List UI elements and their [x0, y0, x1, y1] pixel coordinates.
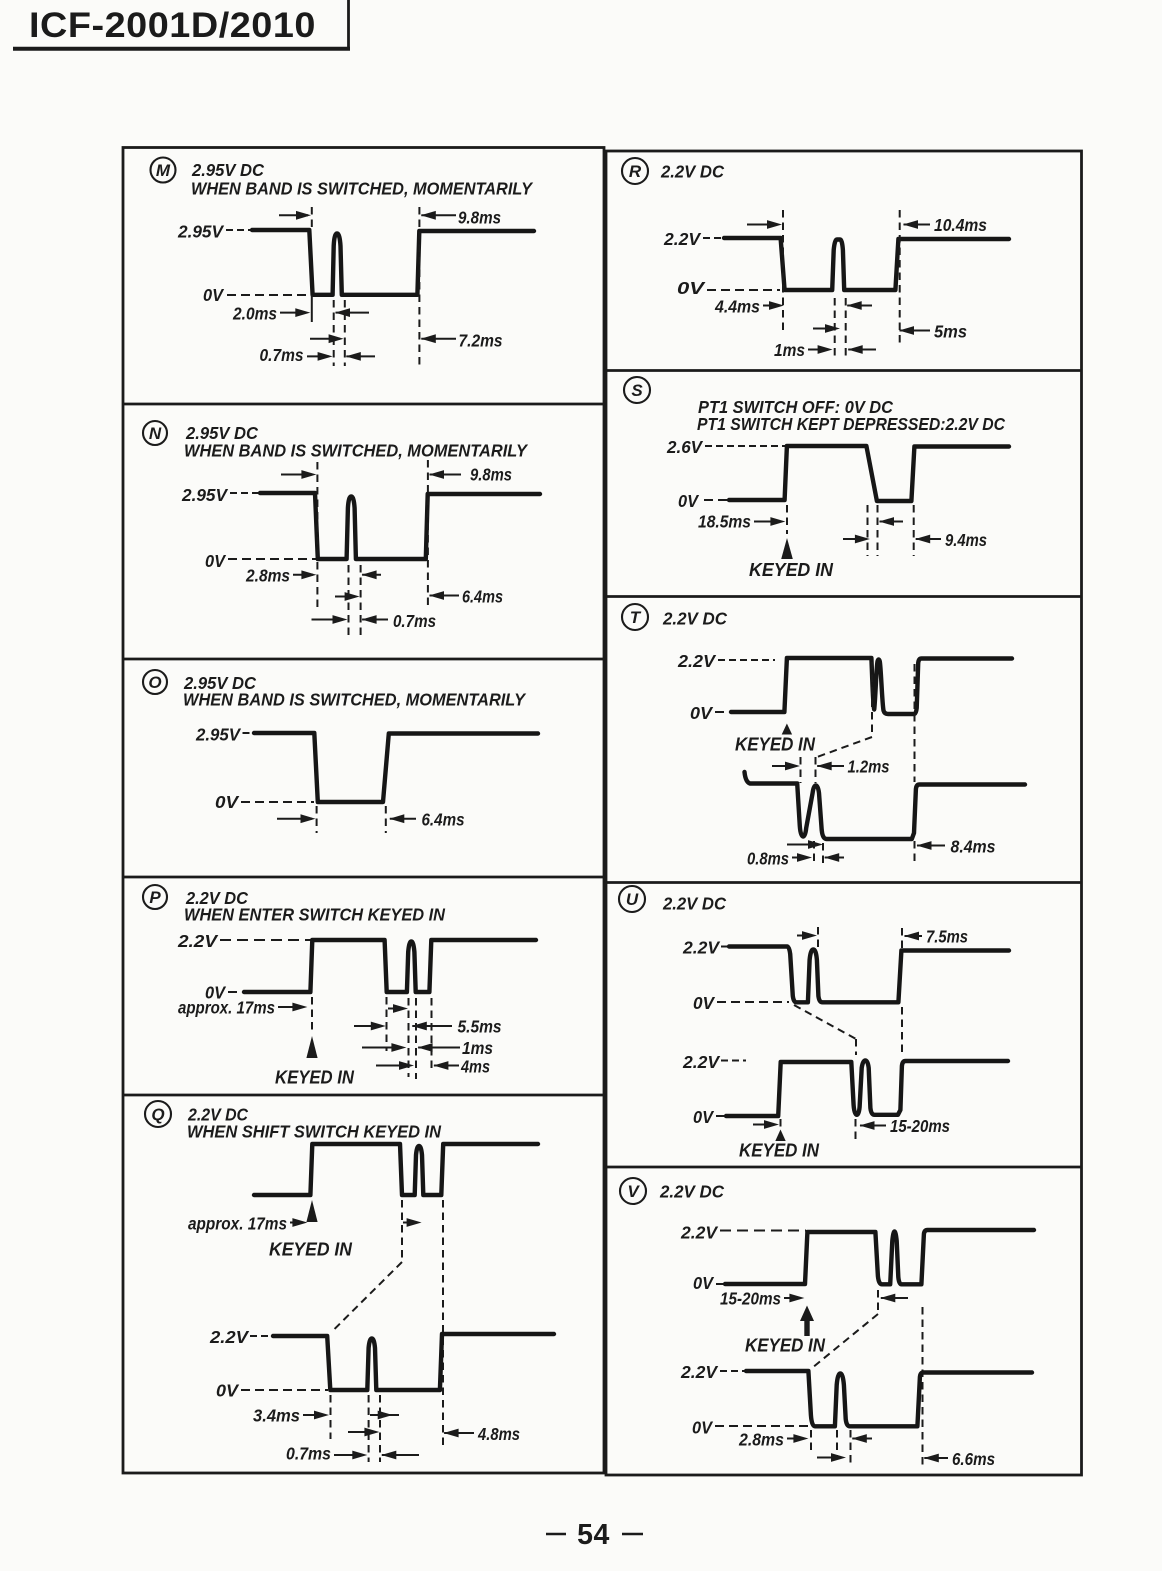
- panel V dashed edge marker (upper fall): [877, 1290, 879, 1314]
- panel M dimension 7.2ms: [421, 331, 503, 351]
- svg-text:1ms: 1ms: [774, 340, 805, 360]
- left column outer frame: [123, 148, 604, 1474]
- panel N circle label: [143, 421, 167, 445]
- svg-text:approx. 17ms: approx. 17ms: [178, 998, 275, 1018]
- svg-text:WHEN ENTER SWITCH KEYED IN: WHEN ENTER SWITCH KEYED IN: [184, 905, 445, 925]
- panel P circle label: [143, 885, 167, 909]
- panel Q short arrow after fall: [403, 1218, 422, 1227]
- svg-text:1.2ms: 1.2ms: [848, 757, 890, 777]
- svg-text:0V: 0V: [205, 551, 226, 571]
- panel T dashed spike-rise marker: [815, 757, 817, 783]
- panel M dashed edge marker (rise): [418, 207, 420, 366]
- panel S arrow right of fall: [879, 517, 903, 526]
- svg-text:2.2V: 2.2V: [682, 938, 720, 958]
- svg-text:ICF-2001D/2010: ICF-2001D/2010: [29, 5, 316, 45]
- panel T dashed edge marker (rise, long): [914, 664, 916, 782]
- svg-text:0V: 0V: [693, 1273, 714, 1293]
- panel V dashed edge marker (rise, long): [922, 1307, 924, 1466]
- svg-text:0.8ms: 0.8ms: [747, 849, 789, 869]
- panel Q dashed edge marker (upper fall): [401, 1200, 403, 1262]
- panel Q lower waveform trace: [273, 1334, 554, 1390]
- panel V upper waveform trace: [725, 1230, 1034, 1284]
- panel N dashed pulse-right marker: [360, 565, 362, 638]
- svg-text:2.2V: 2.2V: [682, 1052, 720, 1072]
- panel S dashed edge marker (rise): [913, 505, 915, 556]
- right column outer frame: [606, 151, 1082, 1475]
- panel P short arrow to spike-left: [388, 1004, 408, 1013]
- svg-text:4ms: 4ms: [460, 1057, 490, 1077]
- panel V lower 2.2V level label: [680, 1362, 745, 1382]
- svg-text:0V: 0V: [203, 285, 224, 305]
- divider O/P: [123, 876, 604, 879]
- svg-text:9.8ms: 9.8ms: [458, 208, 501, 228]
- panel P dimension approx. 17ms: [178, 998, 307, 1018]
- panel M dashed pulse-left marker: [333, 300, 335, 366]
- svg-text:54: 54: [577, 1519, 610, 1551]
- svg-text:2.0ms: 2.0ms: [232, 304, 277, 324]
- panel V arrow right of spike: [852, 1434, 872, 1443]
- panel V dashed diagonal connector: [812, 1314, 878, 1368]
- svg-text:0V: 0V: [678, 491, 699, 511]
- panel V dashed spike-right marker: [850, 1430, 852, 1466]
- svg-text:0V: 0V: [690, 703, 713, 723]
- panel T dashed spike-left marker (below): [813, 841, 815, 864]
- svg-text:2.2V: 2.2V: [677, 651, 716, 671]
- svg-text:2.95V DC: 2.95V DC: [191, 160, 264, 180]
- divider U/V: [606, 1166, 1082, 1169]
- panel U dimension 7.5ms: [904, 927, 968, 947]
- svg-text:7.5ms: 7.5ms: [926, 927, 968, 947]
- svg-text:0V: 0V: [693, 1107, 714, 1127]
- panel T circle label: [622, 604, 648, 630]
- svg-text:2.2V DC: 2.2V DC: [660, 162, 724, 182]
- svg-text:0V: 0V: [677, 278, 706, 298]
- svg-text:3.4ms: 3.4ms: [253, 1406, 300, 1426]
- svg-text:2.2V DC: 2.2V DC: [662, 894, 726, 914]
- divider N/O: [123, 658, 604, 661]
- panel S mid arrow to fall-left: [843, 535, 870, 544]
- panel R waveform trace: [724, 238, 1009, 290]
- panel U upper waveform trace: [729, 947, 1009, 1003]
- svg-text:WHEN BAND IS SWITCHED, MOMENTA: WHEN BAND IS SWITCHED, MOMENTARILY: [191, 179, 533, 199]
- svg-text:9.8ms: 9.8ms: [470, 465, 512, 485]
- panel O circle label: [143, 670, 167, 694]
- panel T upper waveform trace: [731, 658, 1012, 714]
- svg-text:PT1 SWITCH KEPT DEPRESSED:2.2V: PT1 SWITCH KEPT DEPRESSED:2.2V DC: [697, 414, 1005, 434]
- panel U dashed diagonal connector: [794, 1005, 856, 1039]
- panel V arrow right of fall: [880, 1294, 908, 1303]
- panel R dimension 5ms: [899, 322, 967, 342]
- svg-text:2.95V: 2.95V: [195, 725, 241, 745]
- panel O waveform trace: [254, 733, 538, 802]
- panel U dashed edge marker (rise, between): [901, 1007, 903, 1056]
- svg-text:2.2V DC: 2.2V DC: [659, 1182, 724, 1202]
- panel Q keyed-in arrow: [306, 1200, 317, 1222]
- page title ICF-2001D/2010: [29, 5, 316, 45]
- panel V dimension 15-20ms: [720, 1289, 804, 1309]
- panel Q lower 2.2V level label: [209, 1327, 272, 1347]
- panel P keyed-in arrow: [306, 1036, 317, 1058]
- panel T dimension 8.4ms: [917, 837, 996, 857]
- panel O 2.95V level label: [195, 725, 254, 745]
- panel N 2.95V level label: [181, 485, 259, 505]
- panel Q dashed diagonal connector: [332, 1262, 403, 1332]
- panel U keyed-in dashed marker: [780, 1119, 782, 1128]
- svg-text:2.6V: 2.6V: [666, 437, 703, 457]
- svg-text:8.4ms: 8.4ms: [951, 837, 996, 857]
- panel N dimension 0.7ms: [312, 611, 437, 631]
- panel N dimension 9.8ms: [281, 465, 512, 485]
- svg-text:5.5ms: 5.5ms: [458, 1017, 502, 1037]
- panel T dashed edge marker (upper fall): [871, 662, 873, 737]
- panel N dimension 6.4ms: [429, 587, 503, 607]
- panel Q dashed lower-fall marker: [330, 1395, 332, 1439]
- divider M/N: [123, 403, 604, 406]
- panel R dashed spike-left marker: [834, 298, 836, 356]
- panel U keyed-in approach arrow: [753, 1120, 779, 1129]
- panel T dashed diagonal connector: [817, 737, 872, 757]
- panel R mid arrow to spike-left: [813, 324, 840, 333]
- panel Q dimension 0.7ms: [286, 1444, 419, 1464]
- svg-text:2.95V: 2.95V: [181, 485, 228, 505]
- svg-text:2.2V: 2.2V: [177, 931, 219, 951]
- panel P 0V level label: [205, 983, 243, 1003]
- panel U dimension 15-20ms: [860, 1116, 951, 1136]
- svg-text:4.8ms: 4.8ms: [477, 1424, 520, 1444]
- svg-text:0.7ms: 0.7ms: [393, 611, 436, 631]
- panel P dashed spike-left marker: [408, 998, 410, 1077]
- panel O dashed edge marker (rise): [385, 806, 387, 833]
- panel Q dashed edge marker (rise, long): [442, 1200, 444, 1445]
- panel M dashed edge marker (fall): [311, 207, 313, 322]
- svg-text:18.5ms: 18.5ms: [698, 512, 751, 532]
- svg-text:0.7ms: 0.7ms: [286, 1444, 331, 1464]
- panel S keyed-in arrow: [781, 538, 793, 559]
- panel R dashed spike-right marker: [845, 298, 847, 356]
- panel S 0V level label: [678, 491, 728, 511]
- panel N waveform trace: [260, 493, 540, 559]
- panel V lower 0V level label: [692, 1418, 809, 1438]
- svg-text:1ms: 1ms: [462, 1038, 493, 1058]
- svg-text:V: V: [627, 1182, 640, 1201]
- panel R dimension 4.4ms: [714, 297, 784, 317]
- svg-text:4.4ms: 4.4ms: [714, 297, 760, 317]
- panel M dashed pulse-right marker: [344, 300, 346, 366]
- panel U lower 0V level label: [693, 1107, 726, 1127]
- panel V circle label: [620, 1178, 646, 1204]
- panel R dashed edge marker (fall): [782, 210, 784, 333]
- panel R dashed edge marker (rise): [899, 210, 901, 343]
- panel N dashed edge marker (fall): [316, 462, 318, 609]
- svg-text:KEYED IN: KEYED IN: [745, 1335, 826, 1356]
- panel N dashed edge marker (rise): [427, 460, 429, 607]
- panel V upper 0V level label: [693, 1273, 724, 1293]
- panel M waveform trace: [252, 230, 534, 295]
- panel Q circle label: [145, 1101, 171, 1127]
- svg-text:2.2V: 2.2V: [680, 1362, 718, 1382]
- panel R arrow right of spike: [847, 301, 872, 310]
- svg-text:7.2ms: 7.2ms: [459, 331, 503, 351]
- panel P 2.2V level label: [177, 931, 311, 951]
- title box right edge: [347, 0, 350, 49]
- svg-text:2.2V: 2.2V: [209, 1327, 249, 1347]
- panel R dimension 10.4ms: [747, 215, 987, 235]
- svg-text:0V: 0V: [215, 792, 239, 812]
- panel M 0V level label: [203, 285, 309, 305]
- svg-text:10.4ms: 10.4ms: [934, 215, 987, 235]
- svg-text:Q: Q: [151, 1105, 164, 1124]
- panel P dashed spike-right marker: [415, 998, 417, 1079]
- panel M mid arrow to pulse-right: [310, 334, 344, 343]
- panel S circle label: [624, 377, 650, 403]
- svg-text:0V: 0V: [692, 1418, 713, 1438]
- panel U lower 2.2V level label: [682, 1052, 746, 1072]
- panel P dimension 5.5ms: [354, 1017, 502, 1037]
- svg-text:approx. 17ms: approx. 17ms: [188, 1214, 287, 1234]
- panel O dimension 6.4ms: [277, 810, 465, 830]
- panel Q dimension approx. 17ms: [188, 1214, 307, 1234]
- panel U dashed spike-right marker (top): [817, 927, 819, 948]
- panel T lower waveform trace: [745, 772, 1026, 839]
- panel P dashed edge marker (fall): [386, 997, 388, 1051]
- panel R circle label: [622, 158, 648, 184]
- panel M dimension 0.7ms: [260, 345, 376, 365]
- svg-text:KEYED IN: KEYED IN: [735, 734, 816, 755]
- panel N 0V level label: [205, 551, 316, 571]
- panel N dashed pulse-left marker: [348, 565, 350, 638]
- svg-text:15-20ms: 15-20ms: [720, 1289, 781, 1309]
- panel M dimension 9.8ms: [279, 208, 501, 228]
- svg-text:2.2V DC: 2.2V DC: [662, 609, 727, 629]
- panel M 2.95V level label: [177, 222, 252, 242]
- panel R 0V level label: [677, 278, 780, 298]
- panel U upper 0V level label: [693, 993, 789, 1013]
- panel P dimension 4ms: [376, 1057, 490, 1077]
- panel O 0V level label: [215, 792, 314, 812]
- svg-text:P: P: [149, 888, 161, 907]
- panel Q mid arrow to spike-right: [348, 1428, 379, 1437]
- svg-text:5ms: 5ms: [934, 322, 967, 342]
- panel T 0V level label: [690, 703, 729, 723]
- svg-text:KEYED IN: KEYED IN: [275, 1067, 355, 1088]
- panel R 2.2V level label: [663, 229, 723, 249]
- panel O dashed edge marker (fall): [316, 806, 318, 833]
- panel V mid arrow to spike-left: [817, 1453, 846, 1462]
- svg-text:WHEN SHIFT SWITCH KEYED IN: WHEN SHIFT SWITCH KEYED IN: [187, 1122, 441, 1142]
- svg-text:KEYED IN: KEYED IN: [739, 1140, 820, 1161]
- svg-text:0.7ms: 0.7ms: [260, 345, 304, 365]
- panel Q dashed spike-right marker: [379, 1395, 381, 1462]
- divider R/S: [606, 369, 1082, 372]
- panel P waveform trace: [244, 940, 536, 992]
- divider T/U: [606, 881, 1082, 884]
- panel M dimension 2.0ms: [232, 304, 369, 324]
- panel U circle label: [619, 886, 645, 912]
- panel T dashed lower-fall marker: [800, 757, 802, 783]
- panel Q arrow right of spike: [370, 1411, 399, 1420]
- panel Q dimension 3.4ms: [253, 1406, 329, 1426]
- divider S/T: [606, 595, 1082, 598]
- panel M circle label: [151, 158, 176, 183]
- divider P/Q: [123, 1094, 604, 1097]
- svg-text:N: N: [149, 424, 162, 443]
- panel V lower waveform trace: [746, 1371, 1032, 1426]
- panel V dimension 6.6ms: [924, 1449, 995, 1469]
- svg-text:2.95V: 2.95V: [177, 222, 224, 242]
- panel U dashed lower-fall marker: [855, 1039, 858, 1143]
- svg-text:6.4ms: 6.4ms: [462, 587, 503, 607]
- svg-text:WHEN BAND IS SWITCHED, MOMENTA: WHEN BAND IS SWITCHED, MOMENTARILY: [183, 690, 526, 710]
- panel U top arrow to spike: [797, 931, 817, 940]
- panel U dashed edge marker (rise top): [901, 928, 903, 948]
- panel Q upper waveform trace: [254, 1144, 538, 1195]
- svg-text:0V: 0V: [693, 993, 715, 1013]
- panel S 2.6V level label: [666, 437, 786, 457]
- panel Q lower 0V level label: [216, 1381, 328, 1401]
- panel V upper 2.2V level label: [680, 1223, 806, 1243]
- panel V dimension 2.8ms: [738, 1430, 808, 1450]
- svg-text:O: O: [148, 673, 161, 692]
- svg-text:T: T: [630, 608, 642, 627]
- svg-text:15-20ms: 15-20ms: [890, 1116, 950, 1136]
- svg-text:KEYED IN: KEYED IN: [269, 1239, 353, 1260]
- panel U keyed-in arrow: [775, 1130, 785, 1142]
- panel U lower waveform trace: [726, 1061, 1008, 1117]
- panel P dashed edge marker (keyed rise): [311, 997, 313, 1033]
- svg-text:U: U: [626, 890, 639, 909]
- svg-text:KEYED IN: KEYED IN: [749, 559, 834, 580]
- panel N mid arrow to pulse-right: [335, 592, 360, 601]
- panel U upper 2.2V level label: [682, 938, 729, 958]
- panel T dimension 0.8ms: [747, 849, 844, 869]
- panel S dashed fall-left marker: [867, 505, 869, 556]
- page number: [546, 1519, 643, 1551]
- svg-text:2.2V: 2.2V: [680, 1223, 718, 1243]
- svg-text:2.8ms: 2.8ms: [245, 566, 290, 586]
- panel N dimension 2.8ms: [245, 566, 381, 586]
- panel T mid line to spike-right: [787, 840, 823, 849]
- panel S dimension 9.4ms: [915, 530, 987, 550]
- panel S waveform trace: [729, 446, 1009, 501]
- panel S dashed fall-right marker: [877, 505, 879, 556]
- panel S dashed edge marker (keyed rise): [786, 505, 788, 534]
- svg-text:0V: 0V: [216, 1381, 239, 1401]
- svg-text:9.4ms: 9.4ms: [945, 530, 987, 550]
- svg-text:M: M: [156, 161, 171, 180]
- panel T 2.2V level label: [677, 651, 775, 671]
- panel V dashed spike-left marker: [836, 1430, 838, 1457]
- panel T dashed spike-right marker (below): [822, 843, 824, 864]
- panel T dashed rise marker (below): [914, 841, 916, 866]
- svg-text:6.4ms: 6.4ms: [422, 810, 465, 830]
- title underline: [13, 47, 350, 51]
- panel V dashed lower-fall marker: [810, 1430, 812, 1450]
- svg-text:WHEN BAND IS SWITCHED, MOMENTA: WHEN BAND IS SWITCHED, MOMENTARILY: [184, 441, 528, 461]
- panel T dimension 1.2ms: [772, 757, 890, 777]
- panel Q dimension 4.8ms: [444, 1424, 521, 1444]
- panel S dimension 18.5ms: [698, 512, 785, 532]
- panel V keyed-in arrow: [800, 1306, 814, 1337]
- svg-text:6.6ms: 6.6ms: [952, 1449, 995, 1469]
- panel P dimension 1ms: [362, 1038, 493, 1058]
- panel P dashed edge marker (rise): [431, 998, 433, 1073]
- svg-text:S: S: [631, 381, 643, 400]
- svg-text:2.8ms: 2.8ms: [738, 1430, 784, 1450]
- svg-text:R: R: [629, 162, 642, 181]
- panel Q dashed spike-left marker: [368, 1395, 370, 1462]
- svg-text:2.2V: 2.2V: [663, 229, 701, 249]
- panel R dimension 1ms: [774, 340, 876, 360]
- panel T keyed-in arrow: [782, 724, 792, 735]
